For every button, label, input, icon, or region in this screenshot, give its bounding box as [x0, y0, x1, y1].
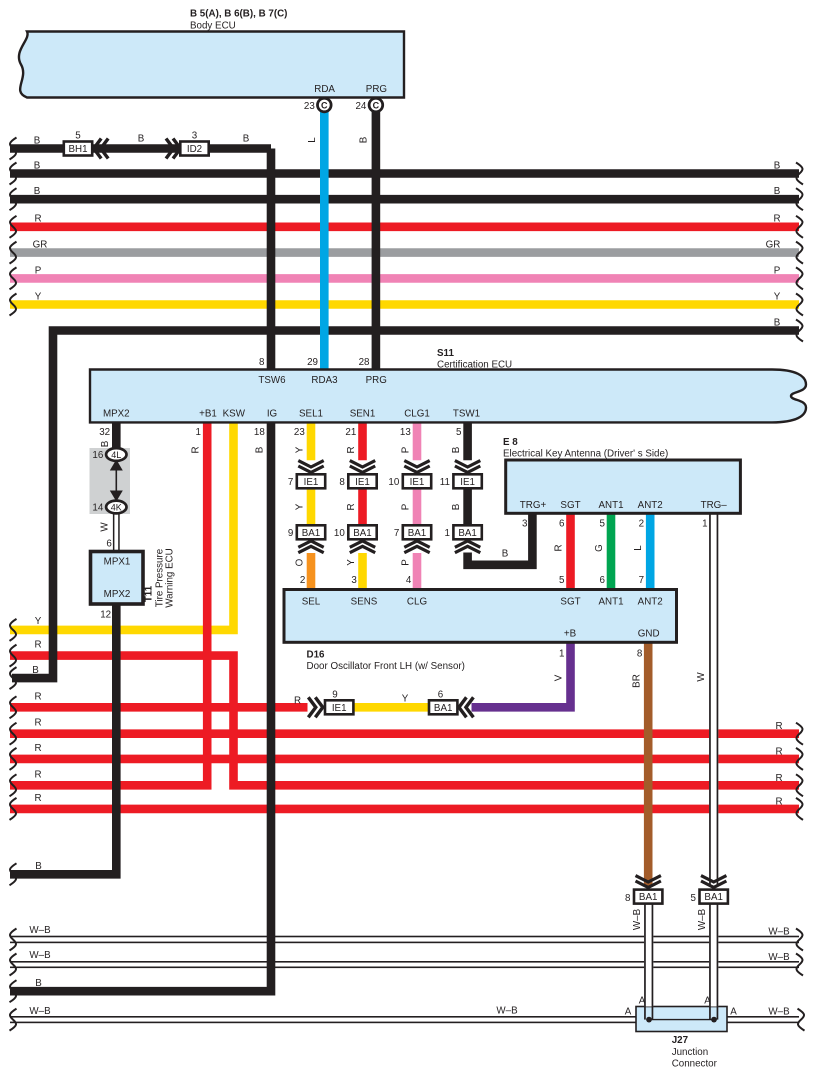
wire B bus 2: [10, 161, 804, 185]
wire W white from E8 TRG- to BA1: [696, 513, 718, 887]
svg-text:+B: +B: [564, 629, 577, 640]
svg-text:8: 8: [259, 357, 265, 368]
svg-text:R: R: [775, 746, 782, 757]
wire R bus: [10, 214, 804, 238]
svg-text:BR: BR: [632, 674, 643, 688]
svg-text:Warning ECU: Warning ECU: [165, 548, 176, 608]
label S11 title: [437, 348, 512, 370]
svg-text:B: B: [502, 549, 509, 560]
svg-text:B: B: [138, 134, 145, 145]
arrow into BA1 at x=417.0: [404, 541, 429, 553]
wire W-B bus 3 through J27: [10, 1006, 805, 1031]
svg-text:23: 23: [304, 101, 315, 112]
wire segment S11 to IE1 at x=467.6: [451, 422, 468, 461]
svg-text:6: 6: [438, 690, 444, 701]
svg-text:1: 1: [196, 427, 201, 438]
pin 5 ANT1 E8: [599, 519, 605, 530]
arrow into BA1 pin 8 bottom: [636, 876, 661, 888]
svg-text:S11: S11: [437, 348, 454, 359]
svg-text:IE1: IE1: [410, 477, 425, 488]
svg-text:W: W: [99, 522, 110, 532]
svg-text:8: 8: [625, 893, 631, 904]
svg-text:Y: Y: [295, 503, 306, 510]
svg-text:11: 11: [440, 477, 450, 488]
svg-text:R: R: [34, 769, 41, 780]
svg-text:R: R: [34, 214, 41, 225]
connector IE1 pin 7: [288, 474, 325, 488]
wire W thin from 4K to MPX1: [99, 513, 119, 552]
wire segment S11 to IE1 at x=362.5: [345, 422, 362, 461]
svg-text:R: R: [775, 796, 782, 807]
svg-text:10: 10: [334, 528, 345, 539]
svg-text:13: 13: [400, 427, 411, 438]
svg-text:B: B: [243, 134, 250, 145]
svg-text:1: 1: [559, 649, 564, 660]
wire B with BH1 and ID2: [10, 134, 272, 160]
label J27 title: [672, 1035, 718, 1070]
wire G ANT1 E8 to D16: [594, 513, 611, 591]
svg-text:P: P: [35, 265, 42, 276]
svg-text:KSW: KSW: [223, 409, 246, 420]
svg-text:BH1: BH1: [68, 144, 87, 155]
wire R bus bottom 2: [10, 743, 804, 770]
svg-text:W–B: W–B: [29, 950, 51, 961]
svg-text:B: B: [774, 318, 781, 329]
svg-text:21: 21: [345, 427, 356, 438]
svg-text:A: A: [639, 996, 646, 1007]
D16 Door Oscillator box: [284, 590, 677, 643]
svg-text:R: R: [34, 718, 41, 729]
connector BH1 pin 5: [64, 131, 92, 156]
svg-text:MPX1: MPX1: [104, 557, 131, 568]
svg-text:4: 4: [406, 575, 412, 586]
svg-text:ANT1: ANT1: [598, 500, 623, 511]
wire P bus: [10, 265, 804, 289]
svg-text:Body ECU: Body ECU: [190, 21, 236, 32]
pin 1 +B D16: [559, 649, 564, 660]
svg-text:GR: GR: [33, 240, 48, 251]
svg-text:ANT2: ANT2: [638, 500, 663, 511]
arrow into IE1 at x=467.6: [455, 461, 480, 473]
svg-text:SENS: SENS: [351, 597, 378, 608]
wire B black from Body ECU PRG: [359, 111, 376, 370]
svg-text:23: 23: [294, 427, 305, 438]
svg-text:B: B: [359, 136, 370, 143]
pin 8 TSW6: [259, 357, 265, 368]
svg-text:ANT2: ANT2: [638, 597, 663, 608]
svg-text:R: R: [775, 773, 782, 784]
pin 23 circled C RDA: [304, 98, 331, 112]
svg-text:W–B: W–B: [768, 952, 790, 963]
wire V purple from D16 +B to BA1: [472, 642, 571, 707]
svg-text:12: 12: [100, 610, 111, 621]
svg-text:4K: 4K: [111, 502, 122, 512]
svg-text:BA1: BA1: [704, 892, 723, 903]
svg-text:28: 28: [359, 357, 370, 368]
svg-text:P: P: [774, 265, 781, 276]
svg-text:B: B: [100, 440, 111, 447]
svg-text:BA1: BA1: [302, 528, 321, 539]
wire B bus elbow with left stub: [10, 318, 804, 690]
pin 6 ANT1 D16: [599, 575, 605, 586]
arrow into BA1 at x=467.6: [455, 541, 480, 553]
pin 7 ANT2 D16: [639, 575, 644, 586]
arrow into BA1 at x=311.0: [298, 541, 323, 553]
svg-text:Door Oscillator Front LH (w/ S: Door Oscillator Front LH (w/ Sensor): [307, 661, 465, 672]
svg-text:MPX2: MPX2: [103, 409, 130, 420]
svg-text:J27: J27: [672, 1035, 689, 1046]
J27 Junction Connector box: [636, 1007, 727, 1032]
label E8 title: [503, 437, 668, 460]
arrow into IE1 at x=417.0: [404, 461, 429, 473]
svg-text:W: W: [696, 672, 707, 682]
svg-text:RDA3: RDA3: [311, 375, 338, 386]
svg-text:Connector: Connector: [672, 1059, 718, 1070]
wire R SGT E8 to D16: [554, 513, 571, 591]
S11 Certification ECU box: [90, 370, 806, 423]
wire R from S11 +B1 down to left edge: [10, 422, 208, 797]
svg-text:24: 24: [355, 101, 366, 112]
svg-text:B 5(A), B 6(B), B 7(C): B 5(A), B 6(B), B 7(C): [190, 9, 287, 20]
svg-text:W–B: W–B: [697, 908, 708, 930]
svg-text:5: 5: [456, 427, 462, 438]
svg-text:BA1: BA1: [408, 528, 427, 539]
svg-text:TSW1: TSW1: [453, 409, 480, 420]
svg-text:Electrical Key Antenna (Driver: Electrical Key Antenna (Driver' s Side): [503, 449, 668, 460]
svg-text:ID2: ID2: [187, 144, 202, 155]
pin 29 RDA3: [307, 357, 318, 368]
connector IE1 pin 11: [440, 474, 482, 488]
connector IE1 pin 10: [388, 474, 431, 488]
wire BR brown from D16 GND to BA1: [632, 642, 649, 886]
svg-text:IG: IG: [267, 409, 277, 420]
wire W-B bus 1: [10, 925, 804, 951]
arrow into BA1 at x=362.5: [350, 541, 375, 553]
svg-text:R: R: [346, 446, 357, 453]
T11 Tire Pressure Warning ECU box MPX1 MPX2: [91, 552, 144, 605]
svg-text:P: P: [401, 559, 412, 566]
svg-text:5: 5: [559, 575, 565, 586]
svg-text:R: R: [554, 544, 565, 551]
svg-text:Y: Y: [402, 694, 409, 705]
arrow into BH1: [94, 139, 109, 159]
svg-text:IE1: IE1: [460, 477, 475, 488]
connector IE1 pin 9 middle row: [325, 690, 353, 715]
arrow into BA1 middle row: [459, 697, 474, 717]
svg-text:A: A: [730, 1007, 737, 1018]
svg-text:14: 14: [92, 503, 103, 514]
junction dot J27 left: [646, 1017, 652, 1023]
svg-text:SGT: SGT: [560, 500, 580, 511]
svg-text:5: 5: [75, 131, 81, 142]
svg-text:+B1: +B1: [199, 409, 217, 420]
svg-text:3: 3: [522, 519, 528, 530]
svg-text:W–B: W–B: [29, 925, 51, 936]
svg-text:TRG–: TRG–: [701, 500, 728, 511]
svg-text:CLG: CLG: [407, 597, 427, 608]
svg-text:5: 5: [691, 893, 697, 904]
svg-text:SEN1: SEN1: [350, 409, 376, 420]
pin 28 PRG: [359, 357, 370, 368]
svg-text:B: B: [255, 446, 266, 453]
svg-text:R: R: [191, 446, 202, 453]
svg-text:BA1: BA1: [434, 703, 453, 714]
wire segment IE1 to BA1 at x=417.0: [401, 474, 418, 525]
wire B bus 3: [10, 186, 804, 210]
svg-text:10: 10: [388, 477, 399, 488]
svg-text:W–B: W–B: [632, 908, 643, 930]
connector BA1 pin 9: [288, 525, 325, 539]
wire segment S11 to IE1 at x=417.0: [400, 422, 417, 461]
svg-text:B: B: [451, 503, 462, 510]
svg-text:6: 6: [106, 539, 112, 550]
svg-text:L: L: [307, 137, 318, 143]
svg-text:B: B: [774, 161, 781, 172]
wire segment IE1 to BA1 at x=311.0: [295, 474, 312, 525]
svg-text:W–B: W–B: [29, 1006, 51, 1017]
svg-text:SEL1: SEL1: [299, 409, 323, 420]
svg-text:W–B: W–B: [496, 1006, 518, 1017]
pin 6 SGT E8: [559, 519, 565, 530]
svg-text:6: 6: [599, 575, 605, 586]
wire segment BA1 to D16 at x=311.0: [295, 553, 312, 590]
svg-text:1: 1: [444, 528, 449, 539]
label D16 title: [307, 650, 465, 673]
svg-text:Y: Y: [35, 291, 42, 302]
pin 24 circled C PRG: [355, 98, 382, 112]
svg-text:W–B: W–B: [768, 927, 790, 938]
connector BA1 pin 5 bottom: [691, 890, 728, 904]
label Body ECU title: [190, 9, 287, 32]
svg-text:RDA: RDA: [314, 84, 335, 95]
wire R elbow bus: [10, 640, 804, 797]
wire segment S11 to IE1 at x=311.0: [294, 422, 311, 461]
connector oval 4K pin 14: [92, 501, 126, 514]
svg-text:B: B: [35, 978, 42, 989]
connector BA1 pin 1: [444, 525, 481, 539]
svg-text:BA1: BA1: [458, 528, 477, 539]
svg-text:R: R: [346, 503, 357, 510]
svg-text:7: 7: [288, 477, 293, 488]
arrow into IE1 middle row: [308, 697, 323, 717]
connector BA1 pin 10: [334, 525, 377, 539]
svg-text:2: 2: [300, 575, 305, 586]
wire L ANT2 E8 to D16: [633, 513, 650, 591]
svg-text:MPX2: MPX2: [104, 589, 131, 600]
junction dot J27 right: [711, 1017, 717, 1023]
wire W-B bus 2: [10, 950, 804, 976]
wire R to IE1 (middle row): [10, 692, 308, 719]
svg-text:IE1: IE1: [304, 477, 319, 488]
svg-text:18: 18: [254, 427, 265, 438]
wire GR bus: [10, 240, 804, 264]
svg-text:L: L: [633, 545, 644, 551]
svg-text:IE1: IE1: [332, 703, 347, 714]
wire Y between IE1 and BA1 (middle row): [353, 694, 429, 708]
svg-text:Y: Y: [346, 559, 357, 566]
svg-text:7: 7: [639, 575, 644, 586]
svg-text:A: A: [625, 1007, 632, 1018]
svg-text:TRG+: TRG+: [520, 500, 547, 511]
svg-text:9: 9: [332, 690, 337, 701]
svg-text:7: 7: [394, 528, 399, 539]
svg-text:B: B: [34, 136, 41, 147]
arrow into ID2: [166, 139, 181, 159]
wire R bus bottom 1: [10, 718, 804, 745]
svg-text:CLG1: CLG1: [404, 409, 430, 420]
svg-text:R: R: [34, 743, 41, 754]
svg-text:B: B: [34, 161, 41, 172]
pin 2 ANT2 E8: [639, 519, 644, 530]
connector IE1 pin 8: [339, 474, 376, 488]
svg-text:ANT1: ANT1: [598, 597, 623, 608]
svg-text:IE1: IE1: [355, 477, 370, 488]
svg-text:G: G: [594, 544, 605, 552]
svg-text:C: C: [321, 100, 328, 110]
svg-text:R: R: [34, 640, 41, 651]
svg-text:B: B: [35, 861, 42, 872]
svg-text:V: V: [554, 674, 565, 681]
svg-text:P: P: [401, 503, 412, 510]
svg-text:BA1: BA1: [639, 892, 658, 903]
wire segment BA1 to D16 at x=362.5: [346, 553, 363, 590]
wire segment IE1 to BA1 at x=467.6: [451, 474, 468, 525]
svg-text:1: 1: [702, 519, 707, 530]
svg-text:8: 8: [339, 477, 345, 488]
pin 5 SGT D16: [559, 575, 565, 586]
svg-text:R: R: [294, 696, 301, 707]
wire Y bus: [10, 291, 804, 315]
svg-text:Junction: Junction: [672, 1047, 709, 1058]
svg-text:SEL: SEL: [302, 597, 321, 608]
svg-text:6: 6: [559, 519, 565, 530]
svg-text:32: 32: [99, 427, 110, 438]
svg-text:W–B: W–B: [768, 1007, 790, 1018]
svg-text:B: B: [451, 446, 462, 453]
svg-text:SGT: SGT: [560, 597, 580, 608]
svg-text:B: B: [32, 665, 39, 676]
wire segment BA1 to D16 at x=417.0: [401, 553, 418, 590]
svg-text:GR: GR: [766, 240, 781, 251]
svg-text:9: 9: [288, 528, 293, 539]
svg-text:R: R: [773, 214, 780, 225]
svg-text:BA1: BA1: [353, 528, 372, 539]
wire R bus bottom 3: [10, 793, 804, 820]
E8 Electrical Key Antenna box: [506, 460, 741, 513]
wire B from BH1 bus down to S11 TSW6: [267, 149, 276, 371]
svg-text:R: R: [34, 793, 41, 804]
svg-text:4L: 4L: [111, 450, 121, 460]
svg-text:29: 29: [307, 357, 318, 368]
svg-text:3: 3: [192, 131, 198, 142]
svg-text:D16: D16: [307, 650, 326, 661]
svg-text:T11: T11: [144, 585, 155, 602]
svg-text:PRG: PRG: [366, 84, 387, 95]
wire W-B from BA1 5 to J27: [697, 904, 718, 1020]
svg-text:P: P: [401, 446, 412, 453]
connector ID2 pin 3: [180, 131, 208, 156]
svg-text:Certification ECU: Certification ECU: [437, 359, 512, 370]
svg-text:R: R: [775, 721, 782, 732]
arrow into IE1 at x=362.5: [350, 461, 375, 473]
svg-text:PRG: PRG: [366, 375, 387, 386]
connector BA1 pin 8 bottom: [625, 890, 662, 904]
connector oval 4L pin 16: [92, 448, 126, 461]
svg-text:Y: Y: [35, 616, 42, 627]
svg-text:C: C: [373, 100, 380, 110]
wire Y to KSW: [10, 422, 234, 641]
svg-text:5: 5: [599, 519, 605, 530]
wire L blue from Body ECU RDA: [307, 111, 324, 370]
svg-text:B: B: [34, 186, 41, 197]
wire W-B from BA1 8 to J27: [632, 904, 653, 1020]
svg-text:16: 16: [92, 450, 103, 461]
arrow into BA1 pin 5 bottom: [701, 876, 726, 888]
svg-text:8: 8: [637, 649, 643, 660]
wire B from BA1 to E8 TRG+: [468, 513, 533, 565]
svg-text:R: R: [34, 692, 41, 703]
wire segment IE1 to BA1 at x=362.5: [346, 474, 363, 525]
svg-text:B: B: [774, 186, 781, 197]
svg-text:3: 3: [351, 575, 357, 586]
svg-text:Y: Y: [774, 291, 781, 302]
connector BA1 pin 7: [394, 525, 431, 539]
wire B from S11 IG down to left edge: [10, 422, 272, 1003]
wire B MPX2 stub to 4L: [99, 422, 116, 450]
svg-text:2: 2: [639, 519, 644, 530]
connector BA1 pin 6 middle row: [429, 690, 457, 715]
arrow into IE1 at x=311.0: [298, 461, 323, 473]
Body ECU box: [19, 32, 404, 98]
connector 4L 4K shield box: [90, 448, 131, 514]
svg-text:A: A: [704, 996, 711, 1007]
svg-text:TSW6: TSW6: [258, 375, 286, 386]
svg-text:GND: GND: [638, 629, 660, 640]
svg-text:Y: Y: [295, 446, 306, 453]
svg-text:O: O: [295, 558, 306, 566]
svg-text:E 8: E 8: [503, 437, 518, 448]
wire B from MPX1 MPX2 pin 12 down to left edge: [10, 604, 117, 885]
label T11 title rotated: [144, 548, 176, 608]
